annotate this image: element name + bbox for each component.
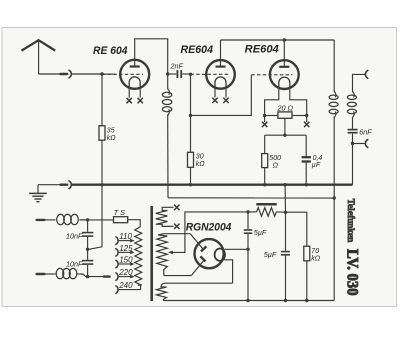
tube V1 RE604 xyxy=(120,60,149,89)
ground bus xyxy=(71,184,352,186)
svg-text:RE604: RE604 xyxy=(181,44,214,56)
label 220 xyxy=(118,268,133,277)
junction B+ node xyxy=(333,196,336,199)
anode plate upper V4 xyxy=(201,246,206,251)
center tap wire xyxy=(172,212,249,253)
capacitor C4 5uF xyxy=(244,212,252,301)
wire 20R tap down xyxy=(284,118,286,135)
resistor R3 20 Ohm xyxy=(265,112,307,118)
wire L4 right xyxy=(276,211,285,213)
capacitor C2 0.4uF xyxy=(302,157,311,185)
title LV 930 xyxy=(344,249,361,296)
wire fuse to primary xyxy=(128,220,141,227)
svg-text:30: 30 xyxy=(196,153,204,160)
tube V2 RE604 xyxy=(206,60,235,89)
wire node D to V3 grid xyxy=(191,75,252,115)
junction 6nF terminal xyxy=(351,142,354,145)
title Telefunken xyxy=(346,199,356,243)
filament x marks V3 xyxy=(262,122,310,127)
svg-text:35: 35 xyxy=(107,127,115,134)
junction 20R left xyxy=(263,114,266,117)
winding W2 (HV) xyxy=(157,234,168,276)
wire L3 to node H xyxy=(81,274,88,277)
label 6nF xyxy=(359,127,372,136)
wire F to fuse xyxy=(88,219,114,221)
wire L4 to R5 xyxy=(286,212,307,246)
label 10nF top xyxy=(66,232,83,241)
svg-text:2nF: 2nF xyxy=(170,61,184,70)
choke L4 core xyxy=(256,203,276,206)
capacitor C1 2nF xyxy=(168,70,191,78)
plate lead V3 xyxy=(283,40,285,67)
label RE604 (V2) xyxy=(181,44,214,56)
choke L1 xyxy=(162,74,171,198)
svg-text:220: 220 xyxy=(118,268,133,277)
tube V3 RE604 xyxy=(270,60,299,89)
antenna xyxy=(22,40,56,74)
mains choke L3 xyxy=(45,268,84,278)
plug pin 220V xyxy=(104,275,110,277)
wire to terminal T2 xyxy=(353,143,366,145)
filament lead V4 lower xyxy=(222,260,232,283)
junction bus right end xyxy=(0,0,1,1)
filament x marks V2 xyxy=(212,98,228,103)
node A junction xyxy=(100,72,103,75)
node C junction xyxy=(189,73,192,76)
output terminal T2 xyxy=(365,140,367,148)
svg-text:70: 70 xyxy=(311,248,319,255)
tap 125 xyxy=(116,249,135,256)
resistor R4 500 Ohm xyxy=(262,154,268,168)
x mark W1 top xyxy=(174,205,179,210)
capacitor C7 10nF xyxy=(82,249,93,276)
capacitor C5 5uF xyxy=(281,212,290,300)
ground plug P2 xyxy=(61,181,72,189)
svg-text:Telefunken: Telefunken xyxy=(346,199,356,243)
junction plate V3 top rail xyxy=(283,38,286,41)
junction L4 left xyxy=(246,210,249,213)
plate lead V1 to top wire xyxy=(135,39,168,74)
svg-text:T S: T S xyxy=(114,208,125,217)
svg-text:RE604: RE604 xyxy=(245,44,279,56)
wire bus to node G xyxy=(89,185,102,250)
mains choke L2 xyxy=(45,214,86,224)
svg-text:kΩ: kΩ xyxy=(311,255,321,262)
filament legs V3 xyxy=(265,88,307,122)
grid lead V2 (dashed) xyxy=(191,73,229,75)
label 125 xyxy=(119,244,133,253)
junction C5 rail xyxy=(284,299,287,302)
top rail (plates V2 V3 to OT primary) xyxy=(221,39,335,41)
wire L4 left xyxy=(248,211,257,213)
winding W1 (filament V1-V3) xyxy=(156,207,174,226)
resistor R1 35k xyxy=(99,126,105,140)
label RGN2004 xyxy=(186,221,232,233)
wire B+ down right side xyxy=(333,198,335,301)
junction filament B+ xyxy=(246,248,249,251)
label 2nF xyxy=(170,61,184,70)
junction bus center xyxy=(283,183,286,186)
filament legs V1 xyxy=(129,88,140,98)
svg-text:LV. 030: LV. 030 xyxy=(344,249,361,296)
junction C4 rail xyxy=(246,299,249,302)
filament x marks V1 xyxy=(127,98,143,103)
wire node D down xyxy=(190,115,192,152)
svg-text:RE 604: RE 604 xyxy=(93,45,128,57)
capacitor C3 6nF xyxy=(348,130,358,185)
svg-text:µF: µF xyxy=(312,162,321,169)
B+ line xyxy=(168,197,334,199)
svg-text:110: 110 xyxy=(119,232,132,241)
svg-text:150: 150 xyxy=(119,256,133,265)
svg-text:20 Ω: 20 Ω xyxy=(277,103,294,112)
anode plate lower V4 xyxy=(200,256,205,261)
junction R4 bus xyxy=(263,183,266,186)
wire to R4 xyxy=(264,135,266,153)
capacitor C6 10nF xyxy=(82,220,93,249)
wire node E horizontal xyxy=(265,134,307,136)
grid lead V3 (dashed) xyxy=(251,74,292,76)
wire L2 to F xyxy=(80,219,88,221)
label 35 kOhm xyxy=(107,127,117,142)
svg-text:RGN2004: RGN2004 xyxy=(186,221,232,233)
label 0,4 uF xyxy=(312,155,323,169)
svg-text:500: 500 xyxy=(269,155,281,162)
svg-text:10nF: 10nF xyxy=(66,232,83,241)
resistor R5 70k xyxy=(304,246,310,261)
wire W2 top to anode xyxy=(164,234,203,249)
transformer core xyxy=(150,206,153,301)
junction 20R right xyxy=(305,114,308,117)
wire R5 to rail xyxy=(306,261,308,301)
filament lead V4 right xyxy=(224,248,248,250)
filament legs V2 xyxy=(215,88,226,98)
tap 150 xyxy=(116,260,135,267)
junction node G (cap midpoint) xyxy=(86,248,89,251)
tap 110 xyxy=(116,237,135,244)
wire H to 220 plug xyxy=(88,276,104,278)
tap 220 xyxy=(116,273,135,280)
output terminal T1 xyxy=(365,71,367,79)
label 240 xyxy=(118,281,133,290)
label 20 Ohm xyxy=(277,103,294,112)
svg-text:5µF: 5µF xyxy=(254,228,267,237)
svg-text:125: 125 xyxy=(119,244,133,253)
svg-text:kΩ: kΩ xyxy=(196,161,206,168)
node E junction (bias) xyxy=(283,134,286,137)
wire node A down xyxy=(101,74,103,126)
mains plug pin top xyxy=(37,219,45,221)
junction R1 bus xyxy=(100,183,103,186)
wire ground to plug xyxy=(38,184,60,186)
label RE 604 (V1) xyxy=(93,45,128,57)
svg-text:kΩ: kΩ xyxy=(107,135,117,142)
wire antenna to input plug xyxy=(39,73,61,75)
transformer primary winding xyxy=(135,227,142,285)
wire plug to node A xyxy=(71,73,102,75)
junction L2 node F xyxy=(86,218,89,221)
x mark W1 bottom xyxy=(174,224,179,229)
center tap arrow W2 xyxy=(168,251,173,255)
wire W2 bottom to anode xyxy=(164,261,204,276)
mains plug pin bottom xyxy=(37,273,45,275)
label 10nF bottom xyxy=(66,260,83,269)
label 500 Ohm xyxy=(269,155,281,170)
winding W3 (rectifier filament) xyxy=(157,283,335,300)
label TS xyxy=(114,208,125,217)
choke L4 winding xyxy=(257,208,277,217)
junction node H xyxy=(86,275,89,278)
node D junction xyxy=(189,114,192,117)
wire R4 to bus xyxy=(264,168,266,185)
junction L4 right xyxy=(284,211,287,214)
grid lead V1 (dashed) xyxy=(102,73,143,75)
node B junction xyxy=(166,72,169,75)
ground symbol xyxy=(29,185,47,202)
OT secondary winding xyxy=(347,74,365,128)
wire to C2 xyxy=(305,135,307,156)
label 30 kOhm xyxy=(196,153,206,168)
label RE604 (V3) xyxy=(245,44,279,56)
svg-text:6nF: 6nF xyxy=(359,127,372,136)
wire bus to L4 right xyxy=(284,185,286,213)
plate lead V2 xyxy=(220,40,222,66)
junction R2 bus xyxy=(189,183,192,186)
label 110 xyxy=(119,232,132,241)
junction C2 bus xyxy=(305,183,308,186)
wire R2 to bus xyxy=(190,167,192,184)
svg-text:Ω: Ω xyxy=(273,163,279,170)
tube V4 RGN2004 xyxy=(195,239,226,268)
label 5uF second xyxy=(264,250,277,259)
label 150 xyxy=(119,256,133,265)
OT primary winding xyxy=(329,40,338,198)
fuse F1 xyxy=(114,217,128,223)
label 70 kOhm xyxy=(311,248,321,263)
junction R5 rail xyxy=(305,299,308,302)
svg-text:5µF: 5µF xyxy=(264,250,277,259)
wire R1 to bus xyxy=(101,140,103,185)
input plug P1 xyxy=(61,70,72,78)
tap 240 (winding end) xyxy=(116,285,141,293)
wire node C down to node D xyxy=(190,74,192,115)
label 5uF first xyxy=(254,228,267,237)
svg-text:240: 240 xyxy=(118,281,133,290)
resistor R2 30k xyxy=(188,152,194,167)
svg-text:10nF: 10nF xyxy=(66,260,83,269)
